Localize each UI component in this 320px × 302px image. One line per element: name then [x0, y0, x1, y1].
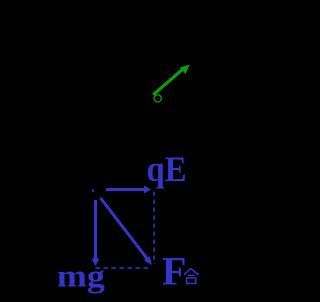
- svg-text:qE: qE: [147, 149, 187, 189]
- qE arrow: [106, 186, 151, 194]
- label he (combined) drawn glyph: [184, 269, 199, 284]
- green velocity arrow: [153, 65, 190, 95]
- dashed vertical line: [153, 192, 155, 265]
- svg-text:F: F: [162, 249, 186, 294]
- dashed horizontal line: [96, 267, 152, 269]
- mg arrow: [92, 200, 100, 266]
- stray dot: [92, 190, 94, 192]
- F combined arrow: [101, 198, 153, 265]
- charge circle: [154, 95, 161, 102]
- svg-text:mg: mg: [57, 258, 105, 294]
